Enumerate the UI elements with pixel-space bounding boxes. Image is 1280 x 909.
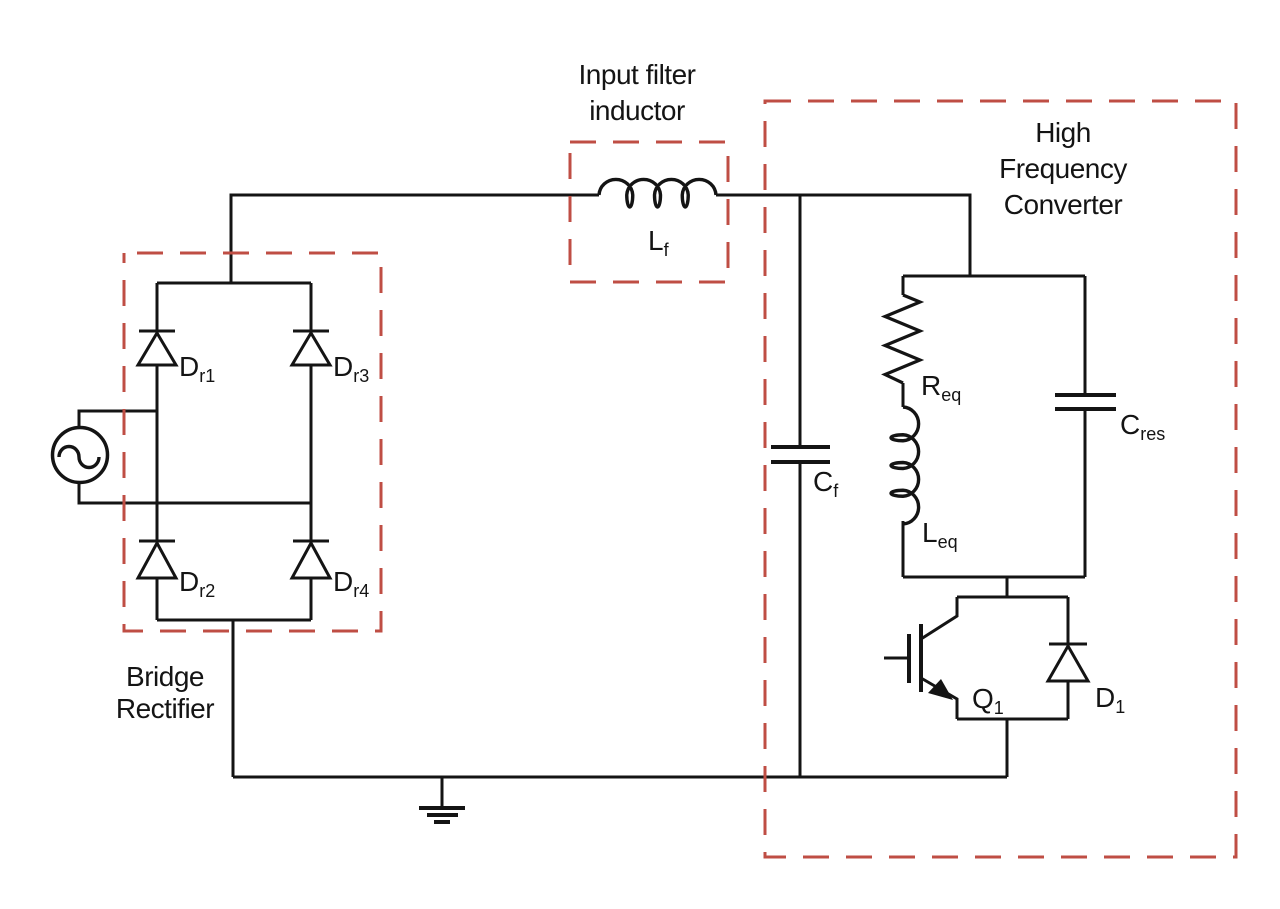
svg-text:Leq: Leq <box>922 517 958 552</box>
wire bridge output <box>232 620 235 777</box>
svg-text:Input filter: Input filter <box>579 59 696 90</box>
svg-text:inductor: inductor <box>589 95 685 126</box>
diode Dr3 <box>292 331 330 365</box>
svg-text:Rectifier: Rectifier <box>116 693 214 724</box>
wire RL/Cres loop top rail <box>903 275 1085 278</box>
transistor Q1 collector lead <box>921 597 957 639</box>
bridge bottom rail <box>157 619 311 622</box>
inductor Leq <box>891 407 919 524</box>
wire top rail right (inductor to HF drop) <box>716 195 970 276</box>
wire ground stub <box>441 777 444 808</box>
diode Dr1 <box>138 331 176 365</box>
svg-text:Cres: Cres <box>1120 409 1165 444</box>
wire drop to Q1/D1 loop <box>1006 577 1009 597</box>
wire Cf branch top <box>799 195 802 447</box>
svg-text:Req: Req <box>921 370 961 405</box>
svg-text:Dr3: Dr3 <box>333 351 369 386</box>
svg-text:Lf: Lf <box>648 225 670 260</box>
box bridge rectifier <box>124 253 381 631</box>
wire top rail left (bridge input to inductor) <box>231 195 599 283</box>
svg-text:Converter: Converter <box>1004 189 1123 220</box>
transistor Q1 main bar <box>919 624 923 692</box>
svg-text:Dr4: Dr4 <box>333 566 369 601</box>
ground <box>419 808 465 822</box>
wire Cres top lead <box>1084 276 1087 395</box>
svg-text:Q1: Q1 <box>972 683 1004 718</box>
wire Req top lead <box>902 276 905 295</box>
svg-text:Dr1: Dr1 <box>179 351 215 386</box>
wire Req-Leq <box>902 383 905 407</box>
box high frequency converter <box>765 101 1236 857</box>
svg-text:Dr2: Dr2 <box>179 566 215 601</box>
wire Cres bottom lead <box>1084 409 1087 577</box>
svg-text:Cf: Cf <box>813 466 839 501</box>
transistor Q1 emitter arrow <box>928 679 953 700</box>
bridge top rail <box>157 282 311 285</box>
wire AC source top lead <box>79 411 157 427</box>
svg-text:D1: D1 <box>1095 682 1125 717</box>
transistor Q1 gate lead <box>884 657 909 660</box>
transistor Q1 emitter lead <box>921 678 957 719</box>
resistor Req <box>885 295 920 383</box>
inductor Lf <box>599 179 716 207</box>
wire Leq bottom lead <box>902 521 905 577</box>
ac source V1 <box>53 428 108 483</box>
capacitor Cres <box>1055 395 1116 409</box>
wire bridge right column <box>310 283 313 620</box>
wire Cf branch bottom <box>799 462 802 777</box>
wire bridge left column <box>156 283 159 620</box>
diode D1 leads <box>1067 597 1070 719</box>
transistor Q1 gate bar <box>907 634 911 683</box>
svg-text:High: High <box>1035 117 1091 148</box>
diode Dr2 <box>138 541 176 578</box>
diode Dr4 <box>292 541 330 578</box>
wire Q1/D1 output <box>1006 719 1009 777</box>
diode D1 <box>1048 644 1088 681</box>
wire RL/Cres loop bottom rail <box>903 576 1085 579</box>
wire Q1/D1 bottom rail <box>957 718 1068 721</box>
wire bottom rail <box>233 776 1007 779</box>
svg-text:Frequency: Frequency <box>999 153 1127 184</box>
box input filter inductor <box>570 142 728 282</box>
svg-text:Bridge: Bridge <box>126 661 204 692</box>
capacitor Cf <box>771 447 830 462</box>
wire Q1/D1 top rail <box>957 596 1068 599</box>
wire AC bottom to bridge mid node <box>79 483 311 503</box>
